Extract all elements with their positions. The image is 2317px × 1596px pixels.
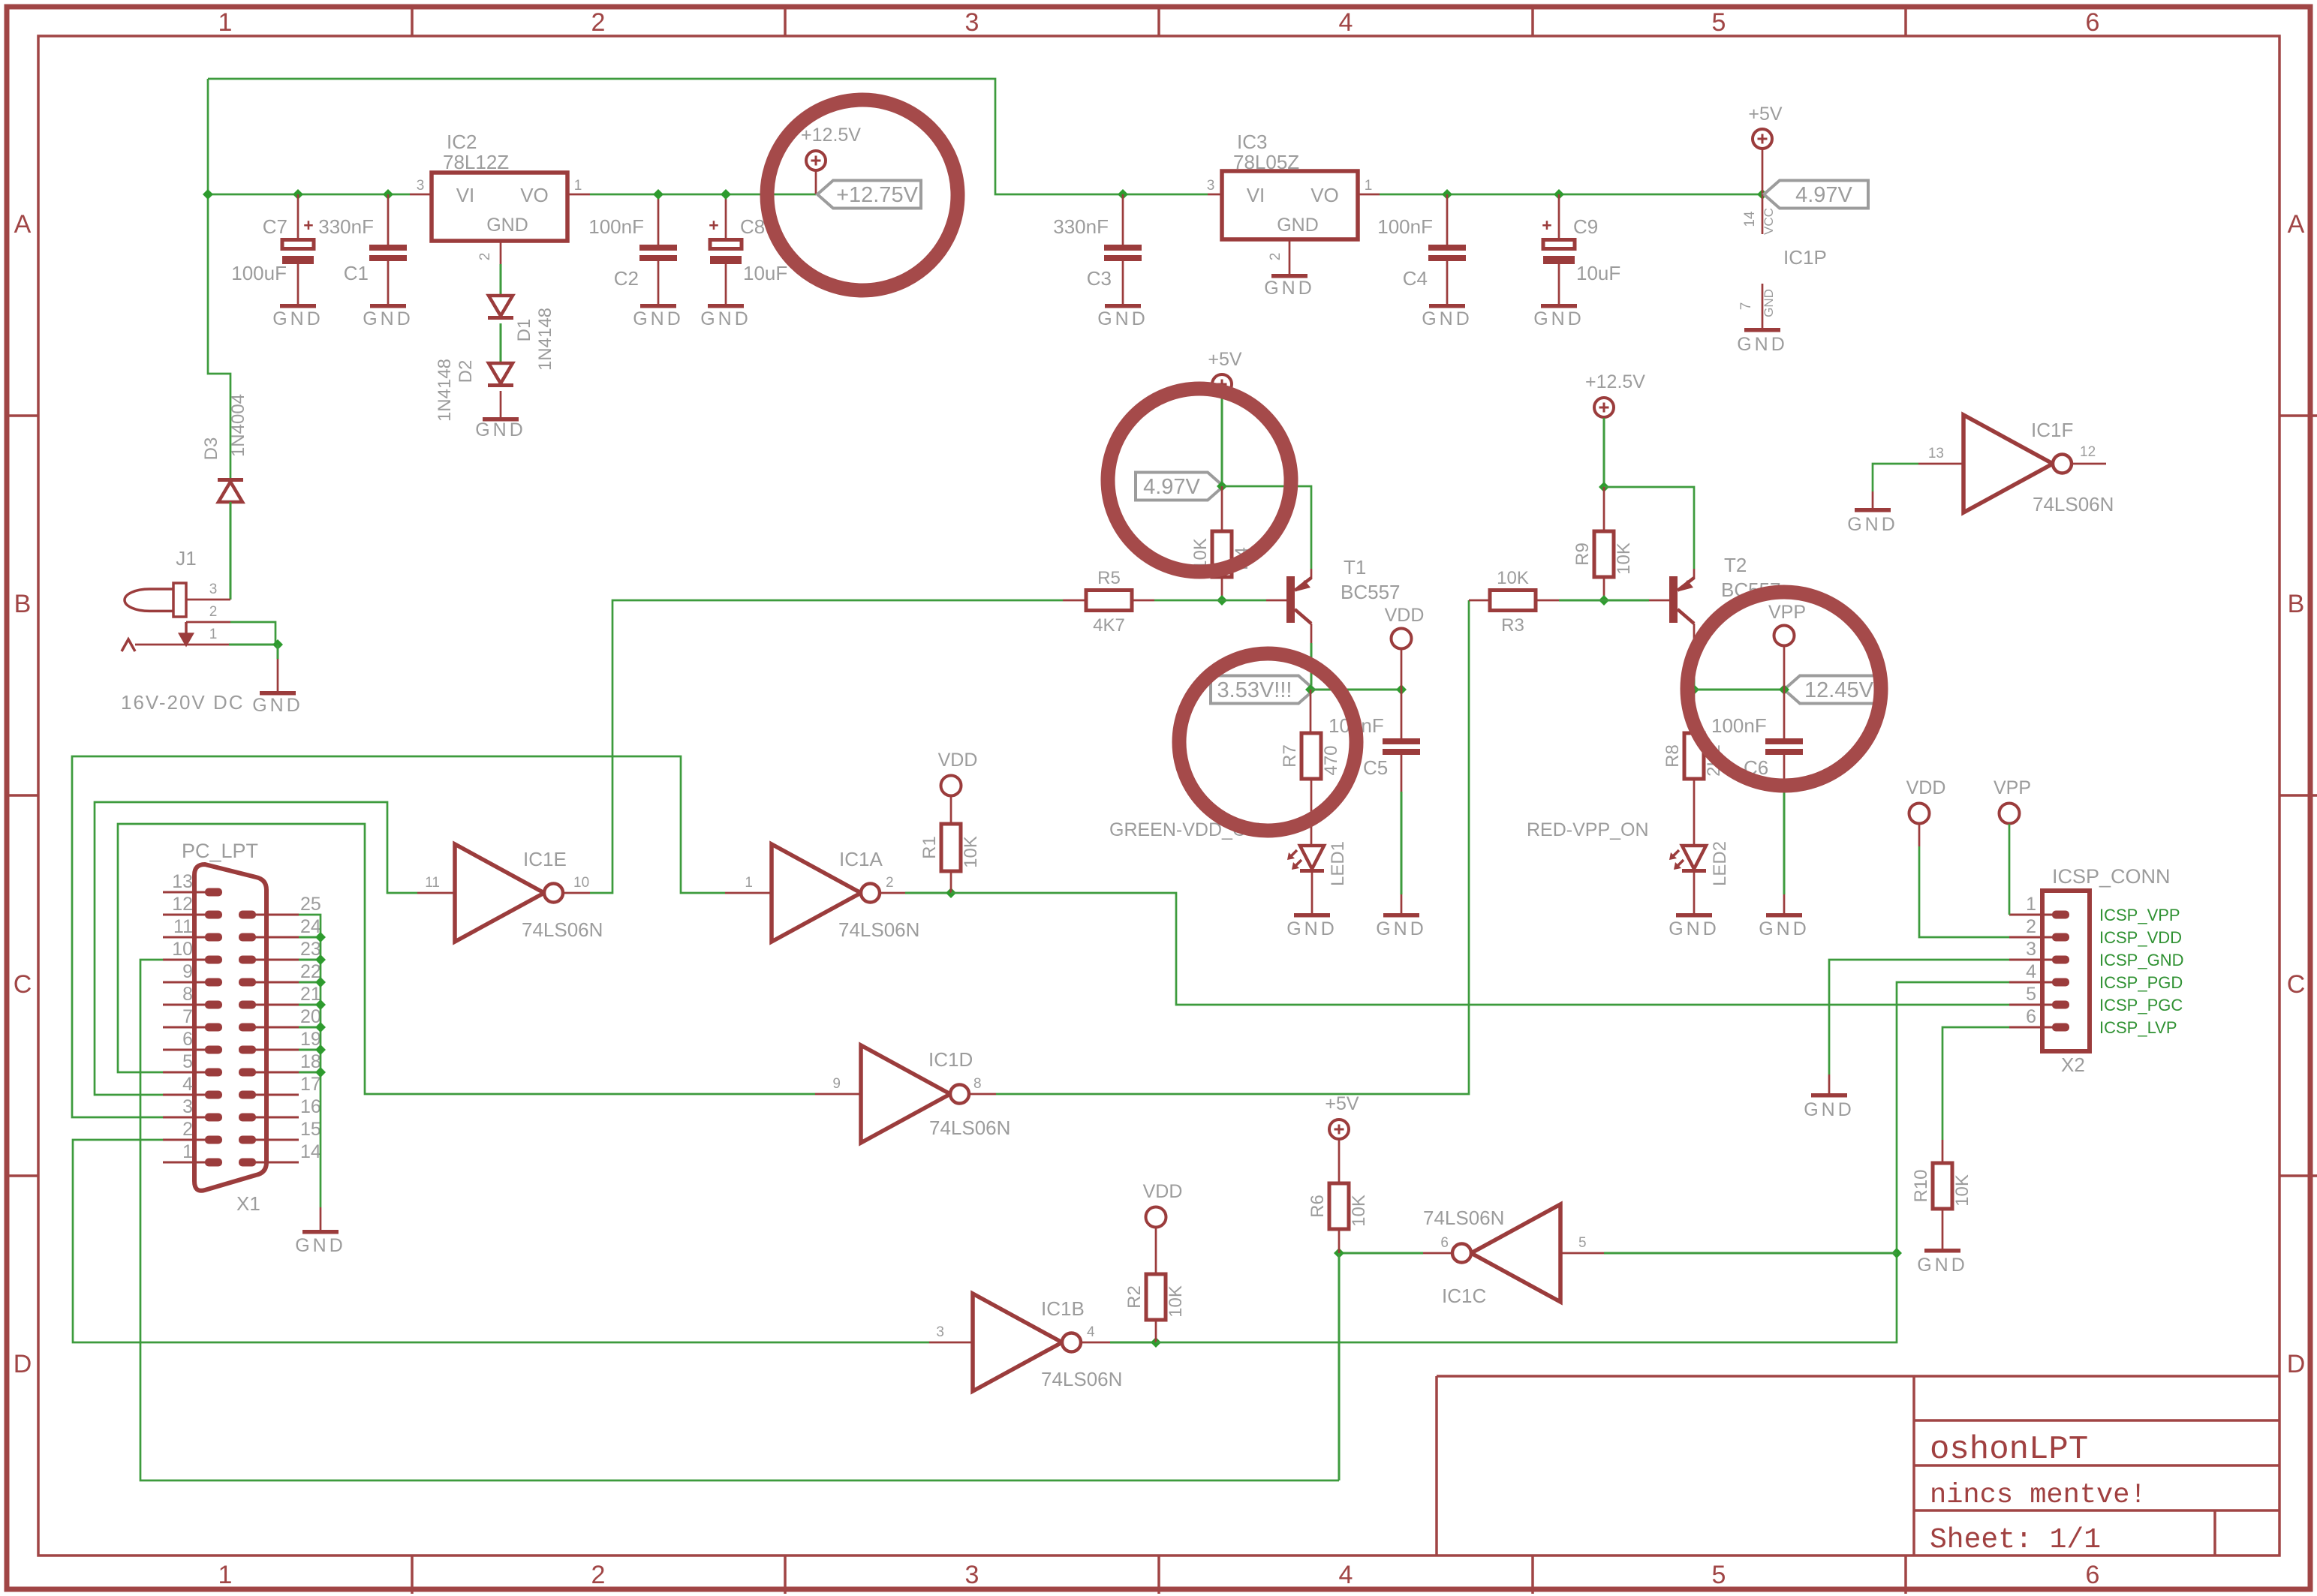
IC2 pin 2 stub (500, 241, 502, 264)
diode D1 (489, 296, 513, 316)
node C9 top (1554, 189, 1564, 200)
svg-text:C1: C1 (344, 262, 369, 284)
inverter IC1F (1963, 415, 2053, 512)
svg-text:B: B (14, 590, 32, 618)
svg-text:ICSP_PGC: ICSP_PGC (2099, 996, 2183, 1014)
wire J1 pin1 to gnd node (229, 644, 278, 646)
wire +5V supply stem (1762, 149, 1764, 194)
svg-text:10uF: 10uF (1576, 262, 1620, 284)
svg-text:C2: C2 (614, 267, 639, 290)
R8 top lead (1693, 690, 1696, 733)
C6 bottom lead (1783, 755, 1786, 784)
wire C4 bottom lead (1446, 261, 1449, 305)
svg-text:4: 4 (1339, 8, 1353, 37)
node C8 top (721, 189, 731, 200)
R6 bottom lead (1338, 1229, 1341, 1253)
resistor R8 (1684, 733, 1704, 779)
svg-text:1: 1 (209, 627, 218, 642)
svg-text:2: 2 (591, 8, 606, 37)
IC2 pin 3 stub (410, 194, 432, 196)
svg-text:IC1P: IC1P (1783, 246, 1827, 269)
svg-text:12: 12 (172, 894, 193, 915)
svg-text:11: 11 (425, 875, 440, 891)
svg-text:BC557: BC557 (1341, 581, 1401, 603)
svg-text:2: 2 (886, 875, 894, 891)
ground under IC3 (1271, 274, 1307, 278)
svg-text:C3: C3 (1087, 267, 1112, 290)
svg-text:GND: GND (1762, 289, 1776, 317)
IC1C input stub (1560, 1252, 1604, 1255)
R8 bottom lead (1693, 779, 1696, 846)
svg-text:3: 3 (1207, 178, 1215, 194)
R7 top lead (1310, 690, 1312, 733)
svg-text:5: 5 (182, 1051, 193, 1072)
svg-text:ICSP_PGD: ICSP_PGD (2099, 973, 2183, 992)
node IC1B output R2 (1151, 1337, 1161, 1348)
wire input top rail (208, 79, 1208, 194)
svg-text:IC1D: IC1D (928, 1048, 973, 1071)
svg-text:R5: R5 (1097, 568, 1121, 588)
svg-text:B: B (2288, 590, 2305, 618)
node 4.97V (1217, 481, 1227, 491)
wire IC1F input from gnd (1873, 464, 1918, 491)
svg-text:VDD: VDD (1143, 1181, 1183, 1202)
transistor T1 BC557 (1286, 576, 1295, 623)
svg-text:4: 4 (1087, 1324, 1095, 1340)
svg-text:74LS06N: 74LS06N (1041, 1368, 1122, 1390)
X2 gnd stub (1828, 1075, 1831, 1093)
X1 pins and pads (205, 888, 222, 897)
wire 12.5 node to T2 emitter (1604, 487, 1694, 569)
wire C9 top lead (1558, 194, 1560, 239)
svg-text:100uF: 100uF (231, 262, 287, 284)
svg-text:5: 5 (2026, 984, 2036, 1005)
svg-text:R8: R8 (1663, 744, 1683, 768)
svg-text:ICSP_CONN: ICSP_CONN (2052, 865, 2171, 888)
svg-text:6: 6 (2086, 1561, 2100, 1589)
J1 pin 1 wire (135, 644, 229, 646)
svg-text:IC1F: IC1F (2031, 419, 2073, 441)
svg-text:GND: GND (1847, 514, 1898, 535)
svg-text:+5V: +5V (1208, 349, 1242, 370)
svg-text:VDD: VDD (1385, 605, 1425, 626)
svg-text:1: 1 (182, 1141, 193, 1162)
ground at IC1F input (1855, 508, 1891, 512)
svg-text:IC1C: IC1C (1442, 1285, 1486, 1307)
svg-text:C: C (2287, 970, 2306, 999)
svg-text:2: 2 (2026, 916, 2036, 937)
wire VPP node to C6 (1694, 689, 1784, 691)
resistor R2 (1146, 1274, 1166, 1320)
wire +12.5V stem (1603, 418, 1605, 487)
svg-text:nincs mentve!: nincs mentve! (1930, 1480, 2147, 1511)
wire T1 emitter stub (1310, 569, 1313, 579)
svg-text:C8: C8 (740, 215, 765, 238)
svg-text:GND: GND (1097, 308, 1148, 329)
svg-text:GND: GND (272, 308, 323, 329)
svg-text:J1: J1 (176, 547, 196, 570)
resistor R4 (1212, 531, 1232, 577)
wire IC1C output to R6 node (1339, 1252, 1423, 1255)
svg-text:11: 11 (173, 916, 193, 937)
svg-text:74LS06N: 74LS06N (838, 918, 919, 941)
ground under C2 (640, 304, 676, 308)
node T1 base (1217, 595, 1227, 606)
svg-text:VO: VO (520, 184, 549, 206)
callout flag +12.75V measurement (817, 181, 921, 209)
IC2 pin 1 stub (567, 194, 590, 196)
supply VDD arrow (1392, 629, 1412, 649)
wire X2 pin3 to ground (1829, 960, 2009, 1075)
svg-text:330nF: 330nF (1053, 215, 1109, 238)
wire input vertical to D3 (208, 194, 230, 480)
node +5V rail (1757, 189, 1768, 200)
svg-text:1N4004: 1N4004 (228, 394, 248, 457)
svg-text:R10: R10 (1911, 1169, 1931, 1202)
node IC1C input on PGD net (1891, 1248, 1902, 1258)
wire X1 pin5 to IC1D column (118, 824, 815, 1094)
supply +5V rail (1753, 129, 1772, 149)
capacitor C4 (1428, 245, 1466, 251)
wire J1 pin2 to gnd node (230, 622, 275, 645)
svg-text:D3: D3 (201, 437, 221, 461)
svg-text:8: 8 (973, 1076, 982, 1092)
svg-text:3: 3 (965, 1561, 979, 1589)
svg-text:VDD: VDD (1906, 777, 1946, 798)
diode D3 (218, 478, 243, 482)
supply +5V above R6 (1329, 1120, 1349, 1139)
svg-text:ICSP_GND: ICSP_GND (2099, 951, 2183, 969)
svg-text:4: 4 (182, 1074, 193, 1095)
svg-text:100nF: 100nF (1711, 714, 1767, 737)
svg-text:9: 9 (832, 1076, 841, 1092)
IC3 78L05Z body (1222, 171, 1358, 239)
svg-text:+5V: +5V (1325, 1093, 1359, 1114)
svg-text:GND: GND (1533, 308, 1584, 329)
J1 pin 3 wire (186, 599, 230, 601)
node R9 top (1599, 482, 1609, 492)
wire base node to T2 (1604, 600, 1649, 602)
wire X1 pin 19 to ground bus (299, 1049, 320, 1051)
supply VDD above R1 (941, 776, 961, 796)
svg-text:GND: GND (1422, 308, 1473, 329)
wire C5 to gnd (1401, 792, 1403, 894)
svg-text:C5: C5 (1363, 756, 1388, 779)
svg-text:PC_LPT: PC_LPT (182, 840, 258, 862)
wire gnd node down (277, 645, 279, 659)
svg-text:330nF: 330nF (318, 215, 374, 238)
ground under C1 (370, 304, 406, 308)
X2 pin 5 stub (2009, 1004, 2052, 1006)
svg-text:1N4148: 1N4148 (535, 308, 555, 371)
wire X1 pin3 to IC1A column (72, 756, 725, 1117)
resistor R3 (1490, 591, 1536, 611)
svg-text:VDD: VDD (938, 750, 978, 771)
wire C1 top lead (387, 194, 390, 245)
node C5 top (1396, 684, 1407, 695)
svg-text:VI: VI (1247, 184, 1265, 206)
svg-text:6: 6 (2086, 8, 2100, 37)
T2 base stub (1649, 600, 1669, 602)
svg-text:+12.5V: +12.5V (1585, 371, 1645, 392)
ground under LED1 (1294, 913, 1330, 918)
svg-text:100nF: 100nF (588, 215, 644, 238)
C6 gnd stub (1783, 894, 1786, 913)
wire X1 pin 20 to ground bus (299, 1026, 320, 1029)
capacitor C5 (1383, 738, 1420, 744)
wire C7 top lead (297, 194, 299, 239)
inverter IC1B (973, 1294, 1062, 1391)
wire C2 bottom lead (657, 261, 660, 305)
R4 top lead (1221, 486, 1223, 531)
wire C3 top lead (1122, 194, 1124, 245)
resistor R1 (941, 824, 961, 871)
IC1A input stub (725, 892, 772, 894)
connector X2 ICSP_CONN body (2042, 891, 2090, 1051)
wire ICSP_PGC net (951, 893, 2009, 1005)
svg-text:1: 1 (1365, 178, 1373, 194)
R10 top lead (1942, 1140, 1944, 1163)
svg-text:25: 25 (300, 894, 321, 915)
transistor T2 BC557 (1669, 576, 1678, 623)
svg-text:C4: C4 (1403, 267, 1428, 290)
wire 12.5V supply stem (815, 171, 817, 194)
svg-text:+: + (303, 215, 313, 235)
svg-text:12.45V: 12.45V (1804, 678, 1874, 702)
svg-text:12: 12 (2080, 444, 2096, 460)
wire X1 pin 18 to ground bus (299, 1072, 320, 1074)
svg-text:C: C (14, 970, 32, 999)
capacitor C2 (639, 245, 677, 251)
svg-text:R1: R1 (919, 836, 940, 859)
IC3 pin 2 stub (1289, 239, 1291, 274)
ground under C8 (708, 304, 744, 308)
ground under X1 (302, 1230, 339, 1234)
resistor R9 (1594, 531, 1614, 577)
svg-text:ICSP_VPP: ICSP_VPP (2099, 906, 2180, 924)
T2 collector stub (1693, 624, 1696, 643)
ground under C4 (1429, 304, 1465, 308)
svg-text:C9: C9 (1573, 215, 1598, 238)
svg-text:oshonLPT: oshonLPT (1930, 1431, 2088, 1468)
svg-text:+5V: +5V (1748, 104, 1783, 125)
svg-text:T1: T1 (1344, 556, 1366, 579)
svg-text:GND: GND (700, 308, 751, 329)
svg-text:GND: GND (363, 308, 414, 329)
wire IC2 output rail (590, 194, 816, 196)
svg-text:IC3: IC3 (1237, 131, 1267, 153)
svg-text:A: A (2288, 210, 2305, 239)
svg-text:IC1B: IC1B (1041, 1297, 1085, 1320)
wire C2 top lead (657, 194, 660, 245)
resistor R7 (1301, 733, 1321, 779)
svg-text:GND: GND (1737, 334, 1788, 355)
highlight circle around 12.45V node (1687, 592, 1881, 786)
node X1 pin 21 ground bus (315, 999, 326, 1010)
svg-text:470: 470 (1321, 745, 1341, 775)
wire R6 node down (1338, 1253, 1341, 1480)
capacitor C1 (369, 245, 407, 251)
J1 pin 1 sleeve mark (122, 639, 135, 651)
svg-text:4.97V: 4.97V (1143, 475, 1200, 499)
R9 top lead (1603, 487, 1605, 531)
svg-text:10K: 10K (1166, 1285, 1186, 1318)
svg-text:3: 3 (182, 1096, 193, 1117)
svg-text:VO: VO (1310, 184, 1339, 206)
svg-text:GND: GND (1669, 918, 1720, 939)
capacitor C6 (1765, 738, 1803, 744)
callout flag 4.97V at VCC (1764, 181, 1868, 209)
svg-text:GND: GND (475, 419, 526, 440)
wire VDD stem (1401, 649, 1403, 690)
supply +12.5V rail (806, 151, 826, 170)
svg-text:17: 17 (300, 1074, 321, 1095)
svg-text:C7: C7 (263, 215, 287, 238)
ground under C3 (1105, 304, 1141, 308)
ground under IC1P (1744, 328, 1780, 332)
node C6 top (1779, 684, 1789, 695)
wire C7 bottom lead (297, 264, 299, 305)
svg-text:13: 13 (1928, 446, 1944, 461)
wire X1 pin2 to IC1B input (73, 1140, 929, 1342)
LED1 bottom lead (1311, 873, 1313, 913)
T1 collector stub (1310, 624, 1313, 643)
svg-text:16V-20V DC: 16V-20V DC (121, 691, 245, 714)
R3 left lead (1469, 600, 1490, 602)
svg-text:15: 15 (300, 1119, 321, 1140)
IC1F gnd stub (1872, 491, 1874, 508)
node T2 base (1599, 595, 1609, 606)
R10 bottom lead (1942, 1209, 1944, 1249)
J1 pin 2 stub (186, 621, 230, 624)
C5 gnd stub (1401, 894, 1403, 913)
svg-text:GND: GND (1759, 918, 1810, 939)
svg-text:74LS06N: 74LS06N (1423, 1207, 1504, 1229)
supply +12.5V above R9 (1594, 398, 1614, 417)
svg-text:GND: GND (295, 1235, 346, 1256)
node X1 pin 19 ground bus (315, 1044, 326, 1055)
capacitor C3 (1104, 245, 1142, 251)
C5 bottom lead (1401, 755, 1403, 792)
node C3 top (1118, 189, 1128, 200)
IC1F output stub (2072, 463, 2106, 465)
ground under R10 (1924, 1249, 1960, 1253)
wire T2 collector down (1693, 643, 1696, 690)
wire T1 collector down (1310, 643, 1313, 690)
svg-text:GND: GND (633, 308, 684, 329)
wire VPP to X2 pin1 (2009, 824, 2011, 915)
connector J1 DC jack body (173, 583, 186, 617)
svg-text:4: 4 (2026, 961, 2036, 982)
R1 top lead (950, 796, 952, 824)
node X1 pin 22 ground bus (315, 977, 326, 987)
node C1 top (383, 189, 393, 200)
wire ICSP_PGD net (1156, 982, 2009, 1342)
svg-text:3: 3 (2026, 939, 2036, 960)
wire X1 pin4 to IC1E column (95, 802, 417, 1095)
IC1F input stub (1918, 463, 1963, 465)
IC1E output stub (561, 892, 590, 894)
svg-text:3.53V!!!: 3.53V!!! (1217, 678, 1292, 702)
svg-text:10K: 10K (1952, 1174, 1972, 1207)
svg-text:6: 6 (1440, 1235, 1449, 1251)
inverter IC1A (772, 844, 861, 942)
node X1 pin 20 ground bus (315, 1022, 326, 1032)
svg-text:R3: R3 (1501, 615, 1524, 636)
svg-text:LED2: LED2 (1710, 841, 1730, 886)
wire X1 pin 24 to ground bus (299, 936, 320, 939)
svg-text:7: 7 (182, 1006, 193, 1027)
supply VDD above X2 (1909, 804, 1930, 824)
LED2 bottom lead (1693, 873, 1696, 913)
callout flag 3.53V!!! measurement (1211, 676, 1314, 704)
node VPP switch output (1689, 684, 1699, 695)
wire X1 pin 23 to ground bus (299, 959, 320, 961)
wire IC2 gnd to D1 (500, 264, 502, 296)
svg-text:VCC: VCC (1762, 208, 1776, 235)
capacitor C7 (282, 240, 314, 249)
svg-text:23: 23 (300, 939, 321, 960)
wire IC1B output to R2 node (1110, 1342, 1156, 1344)
svg-text:T2: T2 (1724, 554, 1747, 576)
svg-text:7: 7 (1738, 302, 1754, 311)
node J1 ground (272, 639, 283, 650)
wire C3 bottom lead (1122, 261, 1124, 305)
svg-text:VI: VI (456, 184, 475, 206)
node X1 pin 18 ground bus (315, 1067, 326, 1078)
svg-text:100nF: 100nF (1377, 215, 1433, 238)
supply +5V above R4 (1212, 374, 1232, 394)
svg-text:2: 2 (1268, 253, 1283, 261)
ground under C6 (1766, 913, 1802, 918)
ground under C9 (1541, 304, 1577, 308)
supply VDD above R2 (1146, 1207, 1166, 1228)
T1 base stub (1266, 600, 1286, 602)
svg-text:+12.75V: +12.75V (836, 183, 919, 207)
wire C8 bottom lead (725, 264, 727, 305)
svg-text:R6: R6 (1307, 1195, 1328, 1218)
wire C6 to gnd (1783, 784, 1786, 894)
svg-text:2: 2 (591, 1561, 606, 1589)
node R6 bottom (1334, 1248, 1344, 1258)
svg-text:IC1E: IC1E (523, 848, 567, 870)
highlight circle around 3.53V node (1179, 654, 1356, 831)
svg-text:D2: D2 (456, 360, 476, 383)
X1 ground bus stub (320, 1207, 322, 1230)
title block box (1437, 1376, 2279, 1555)
svg-text:VPP: VPP (1768, 602, 1806, 623)
svg-text:1: 1 (745, 875, 753, 891)
C5 top lead (1401, 690, 1403, 739)
svg-text:10K: 10K (1497, 568, 1529, 588)
IC2 78L12Z body (432, 173, 567, 241)
svg-text:GND: GND (252, 695, 303, 716)
svg-text:4K7: 4K7 (1093, 615, 1125, 636)
wire X1 pin 21 to ground bus (299, 1004, 320, 1006)
ground under D2 (483, 417, 519, 422)
wire X1 pin25 ground bus (299, 915, 320, 1207)
svg-text:22: 22 (300, 961, 321, 982)
R5 right lead (1132, 600, 1154, 602)
wire D1 to D2 (500, 323, 502, 363)
svg-text:X1: X1 (236, 1192, 260, 1215)
svg-text:78L05Z: 78L05Z (1233, 151, 1299, 173)
svg-text:2: 2 (209, 604, 218, 620)
wire D3 to J1 pin3 (230, 502, 232, 600)
svg-text:LED1: LED1 (1328, 841, 1348, 886)
svg-text:Sheet: 1/1: Sheet: 1/1 (1930, 1524, 2101, 1556)
node X1 pin 23 ground bus (315, 954, 326, 965)
